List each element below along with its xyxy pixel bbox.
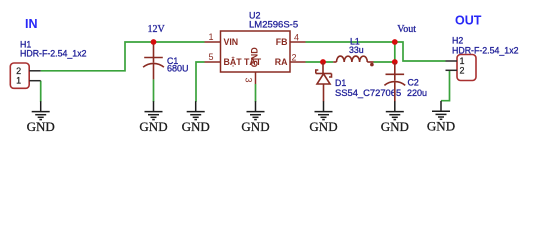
wire C1 bottom to GND <box>153 79 155 101</box>
svg-text:GND: GND <box>309 119 337 134</box>
svg-text:1: 1 <box>16 76 21 86</box>
svg-text:33u: 33u <box>349 45 364 55</box>
svg-text:SS54_C727065: SS54_C727065 <box>335 87 401 98</box>
svg-text:3: 3 <box>244 77 254 82</box>
svg-text:RA: RA <box>275 57 288 67</box>
svg-text:FB: FB <box>276 37 288 47</box>
svg-text:GND: GND <box>427 119 455 134</box>
wire Vout node vertical <box>394 42 396 62</box>
wire U2 FB to Vout node <box>306 41 395 43</box>
wire H2 pin2 down to GND <box>441 70 450 100</box>
svg-text:GND: GND <box>139 119 167 134</box>
svg-text:Vout: Vout <box>397 24 416 35</box>
inductor L1 polarity dot <box>370 63 374 67</box>
wire U2 pin3 to GND <box>255 84 257 102</box>
ground GND A (H1 pin1) <box>27 101 55 134</box>
svg-text:OUT: OUT <box>455 13 482 27</box>
svg-text:2: 2 <box>459 65 464 75</box>
svg-text:2: 2 <box>16 66 21 76</box>
ground GND C (U2 pin5) <box>182 101 210 134</box>
svg-text:GND: GND <box>241 119 269 134</box>
svg-text:HDR-F-2.54_1x2: HDR-F-2.54_1x2 <box>452 46 519 56</box>
ground GND F (C2) <box>381 101 409 134</box>
ground GND G (H2 pin2) <box>427 101 455 134</box>
diode D1 (schottky) <box>316 63 332 102</box>
svg-text:GND: GND <box>250 47 260 68</box>
svg-text:VIN: VIN <box>224 37 239 47</box>
svg-text:2: 2 <box>291 53 296 63</box>
capacitor C2 <box>384 63 405 102</box>
svg-text:1: 1 <box>208 32 213 42</box>
svg-text:12V: 12V <box>148 24 166 35</box>
node Vout junction dot <box>392 39 398 45</box>
wire L1 right to C2 node <box>374 61 395 63</box>
ground GND D (U2 pin3) <box>241 101 269 134</box>
svg-text:H2: H2 <box>452 36 463 46</box>
wire H1 pin2 to 12V node to U2 VIN <box>41 42 205 71</box>
ground GND B (C1) <box>139 101 167 134</box>
svg-text:GND: GND <box>27 119 55 134</box>
svg-text:680U: 680U <box>167 63 189 73</box>
svg-text:4: 4 <box>294 32 299 42</box>
wire Vout node to H2 pin1 <box>395 42 446 61</box>
capacitor C1 <box>143 45 164 80</box>
svg-text:220u: 220u <box>407 88 427 98</box>
svg-text:LM2596S-5: LM2596S-5 <box>249 20 298 31</box>
wire H1 pin1 down to GND <box>40 81 42 102</box>
connector H2 <box>446 55 477 81</box>
svg-text:GND: GND <box>182 119 210 134</box>
inductor L1 <box>333 56 373 62</box>
wire U2 pin5 to GND <box>196 62 205 102</box>
svg-text:IN: IN <box>25 17 38 31</box>
svg-text:HDR-F-2.54_1x2: HDR-F-2.54_1x2 <box>20 49 87 59</box>
svg-text:C2: C2 <box>408 77 419 87</box>
svg-text:GND: GND <box>381 119 409 134</box>
connector H1 <box>10 63 40 88</box>
wire U2 RA to D1 node to L1 <box>306 61 334 63</box>
IC U2 LM2596S-5 body <box>205 31 306 84</box>
node 12V junction dot <box>151 39 157 45</box>
ground GND E (D1) <box>309 101 337 134</box>
node C2 junction dot <box>392 59 398 65</box>
svg-text:5: 5 <box>208 52 213 62</box>
node D1/RA junction dot <box>320 59 326 65</box>
